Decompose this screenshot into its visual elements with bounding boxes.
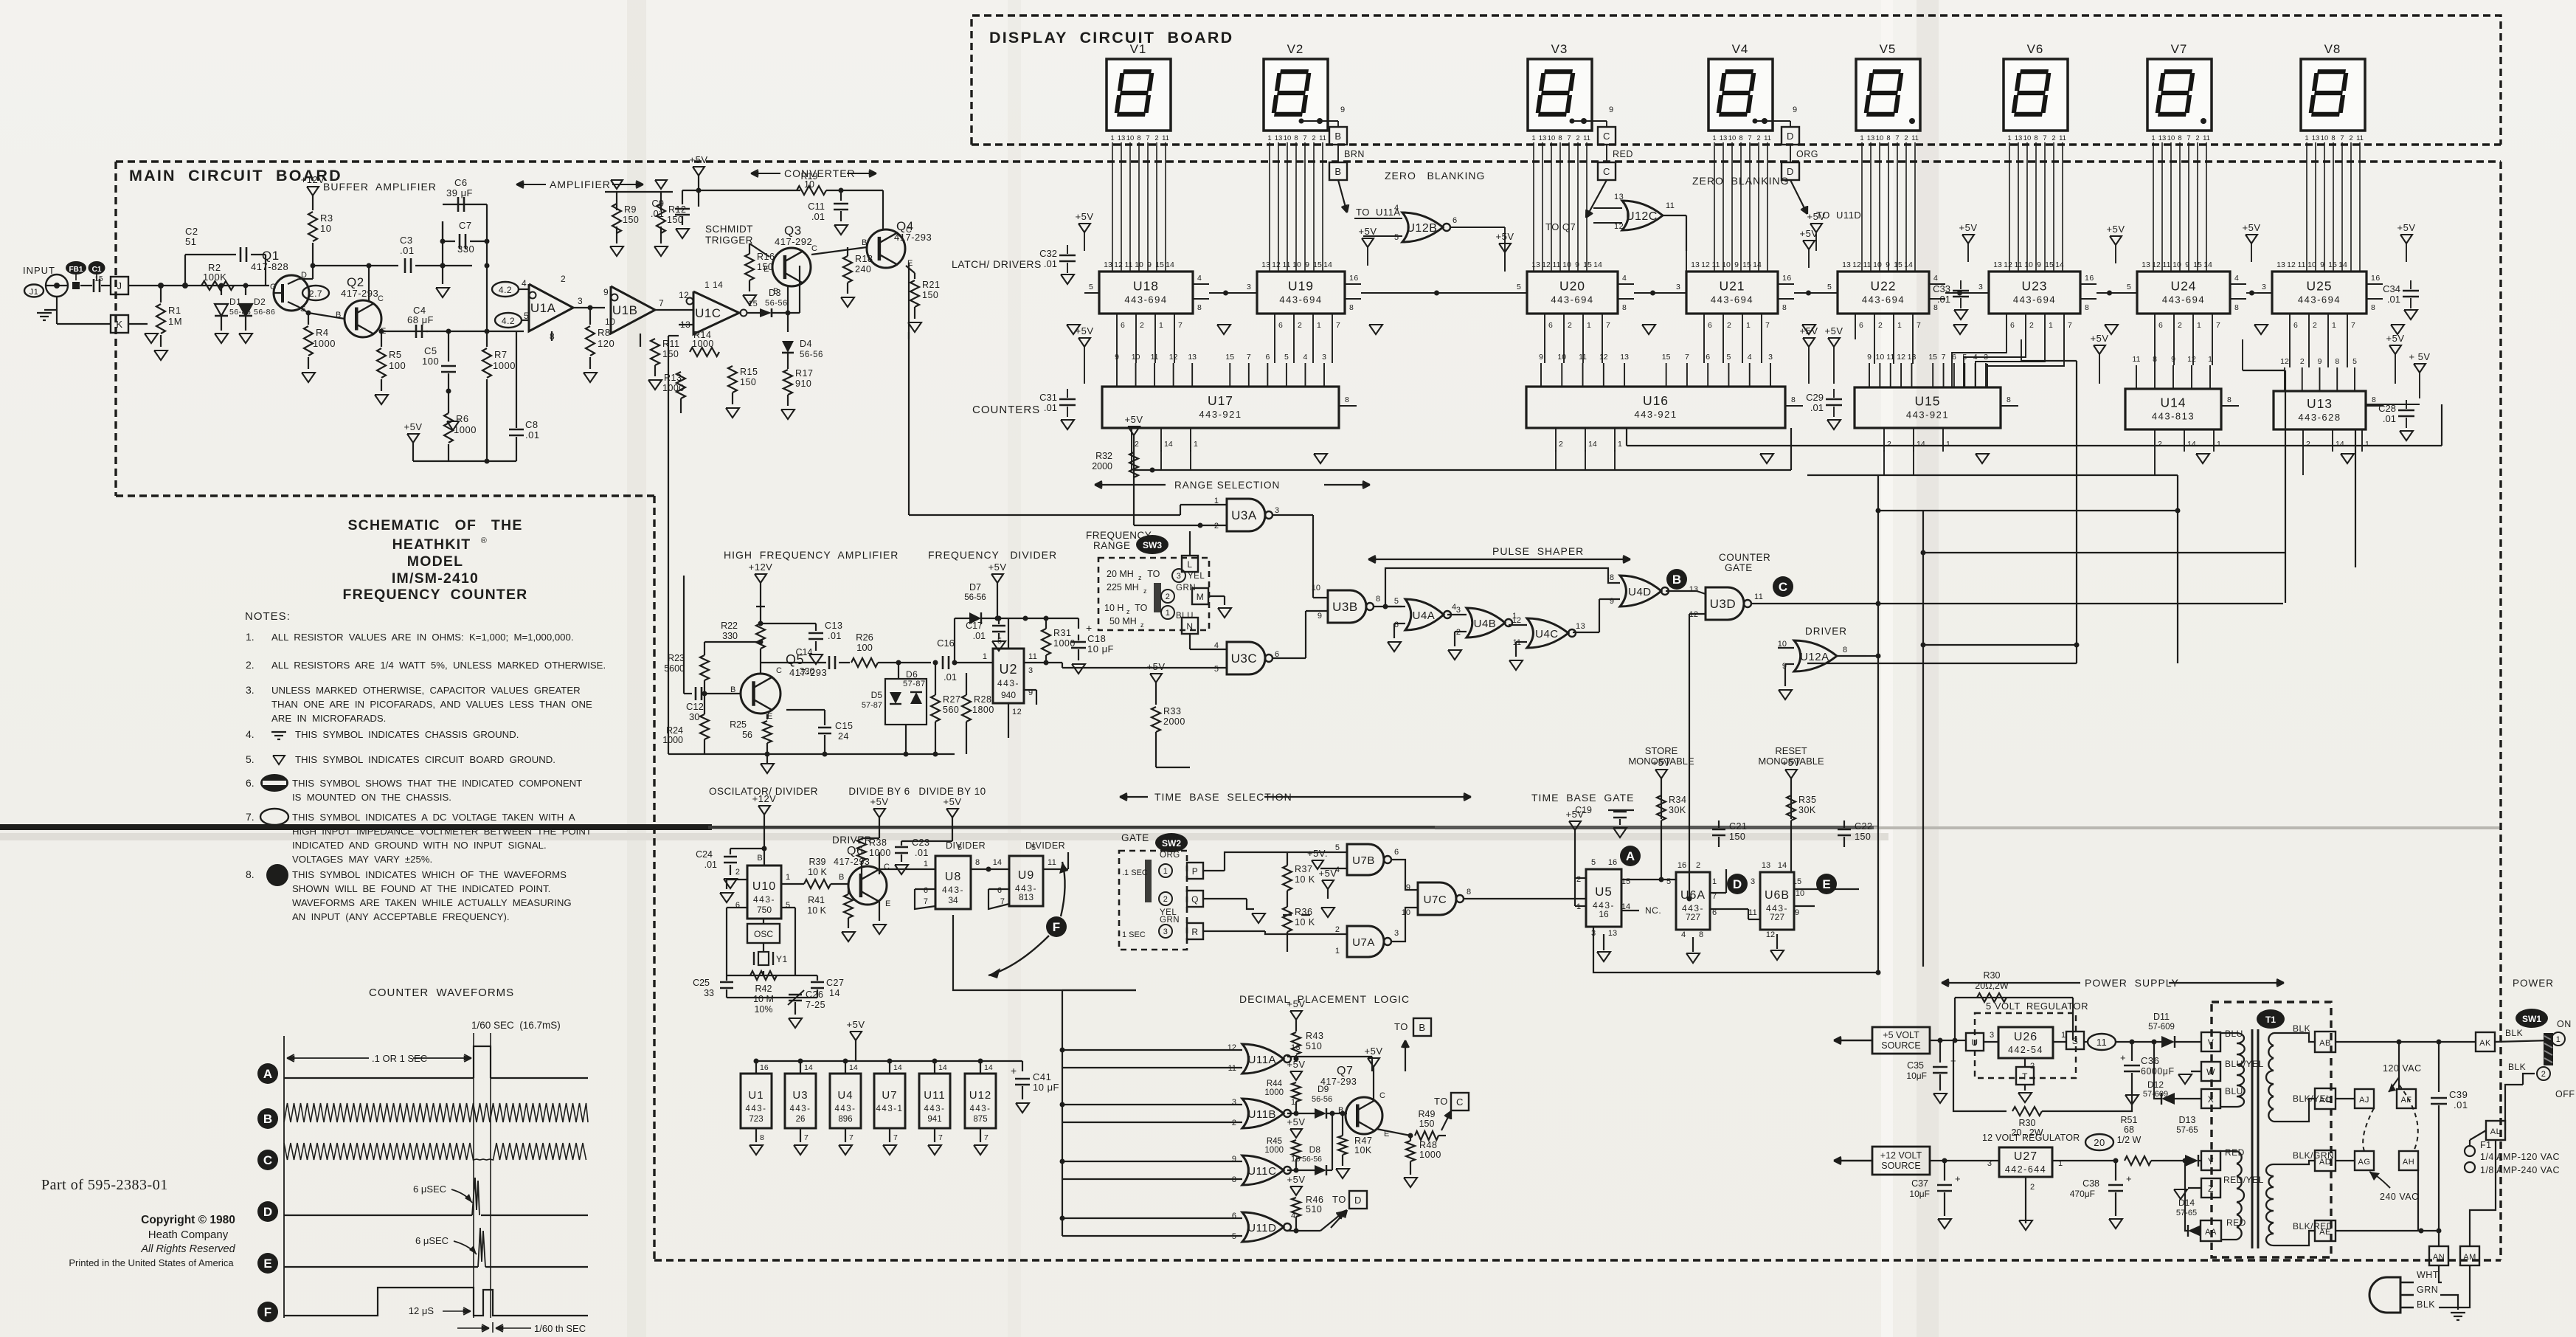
svg-text:+5V: +5V — [1782, 757, 1801, 768]
svg-text:2: 2 — [2178, 321, 2182, 330]
svg-text:30K: 30K — [1669, 805, 1686, 815]
svg-text:U5: U5 — [1595, 885, 1613, 899]
svg-text:14: 14 — [984, 1063, 993, 1072]
svg-text:U4A: U4A — [1413, 609, 1436, 622]
svg-text:C12: C12 — [686, 701, 704, 712]
svg-text:1: 1 — [1946, 440, 1950, 449]
svg-text:R25: R25 — [730, 719, 747, 730]
svg-text:14: 14 — [804, 1063, 813, 1072]
svg-text:U24: U24 — [2170, 279, 2196, 294]
svg-text:2: 2 — [1568, 321, 1572, 330]
svg-text:6: 6 — [2158, 321, 2163, 330]
svg-text:U11: U11 — [924, 1089, 945, 1102]
svg-text:®: ® — [481, 536, 488, 545]
svg-text:4: 4 — [1303, 353, 1308, 362]
svg-text:U6A: U6A — [1680, 889, 1706, 902]
svg-text:443-694: 443-694 — [1862, 294, 1905, 305]
svg-text:5: 5 — [2352, 357, 2357, 366]
svg-text:8: 8 — [1137, 134, 1140, 142]
svg-text:COUNTERS: COUNTERS — [972, 404, 1040, 416]
svg-text:7: 7 — [1748, 134, 1751, 142]
svg-text:9: 9 — [1539, 353, 1543, 362]
svg-text:4: 4 — [1622, 274, 1627, 283]
svg-text:+5V: +5V — [1359, 226, 1377, 237]
svg-text:THIS SYMBOL INDICATES WHICH: THIS SYMBOL INDICATES WHICH OF THE WAVEF… — [292, 869, 567, 880]
svg-text:7: 7 — [1303, 134, 1306, 142]
svg-text:DECIMAL PLACEMENT LOGIC: DECIMAL PLACEMENT LOGIC — [1239, 993, 1410, 1005]
svg-text:2: 2 — [1696, 861, 1700, 870]
svg-text:1: 1 — [924, 860, 928, 868]
svg-text:R27: R27 — [943, 694, 960, 705]
svg-text:13: 13 — [1539, 134, 1547, 142]
svg-text:C2: C2 — [185, 226, 198, 237]
svg-text:30K: 30K — [1798, 805, 1816, 815]
svg-text:3.: 3. — [246, 684, 255, 696]
svg-text:5: 5 — [1284, 353, 1289, 362]
svg-text:7: 7 — [2351, 321, 2355, 330]
svg-text:U7C: U7C — [1424, 894, 1447, 906]
svg-text:V5: V5 — [1880, 42, 1897, 56]
svg-text:150: 150 — [740, 377, 756, 387]
svg-text:F1: F1 — [2480, 1140, 2492, 1150]
svg-text:56-56: 56-56 — [1312, 1095, 1332, 1104]
svg-text:3: 3 — [1768, 353, 1773, 362]
svg-text:U17: U17 — [1208, 393, 1233, 408]
svg-text:12: 12 — [1114, 260, 1123, 269]
svg-text:57-65: 57-65 — [2176, 1209, 2197, 1217]
svg-text:7: 7 — [849, 1133, 854, 1142]
svg-text:9: 9 — [2320, 260, 2324, 269]
svg-text:U13: U13 — [2307, 396, 2333, 411]
svg-text:SW1: SW1 — [2522, 1014, 2541, 1024]
svg-text:12: 12 — [1228, 1043, 1236, 1052]
svg-text:417-293: 417-293 — [1320, 1077, 1357, 1087]
svg-text:SOURCE: SOURCE — [1881, 1040, 1920, 1051]
svg-text:1: 1 — [2305, 134, 2308, 142]
svg-text:11: 11 — [2356, 134, 2364, 142]
svg-text:C8: C8 — [525, 419, 539, 430]
svg-text:9: 9 — [603, 287, 609, 297]
svg-text:U: U — [1971, 1037, 1978, 1048]
svg-text:12: 12 — [1852, 260, 1861, 269]
svg-text:4: 4 — [1933, 274, 1938, 283]
svg-text:8: 8 — [1739, 134, 1742, 142]
svg-text:SCHMIDT: SCHMIDT — [705, 224, 753, 235]
svg-text:2: 2 — [1135, 440, 1139, 449]
svg-text:R44: R44 — [1267, 1079, 1283, 1088]
svg-text:R5: R5 — [389, 349, 402, 360]
svg-text:443-: 443- — [834, 1105, 856, 1113]
svg-text:IS MOUNTED ON THE CHASSIS.: IS MOUNTED ON THE CHASSIS. — [292, 792, 451, 803]
svg-text:51: 51 — [185, 236, 196, 247]
svg-text:100K: 100K — [203, 272, 226, 283]
svg-text:16: 16 — [1782, 274, 1792, 283]
svg-text:10: 10 — [1557, 353, 1566, 362]
svg-text:10%: 10% — [754, 1004, 772, 1015]
svg-text:SW3: SW3 — [1143, 540, 1162, 550]
svg-text:14: 14 — [938, 1063, 947, 1072]
svg-text:10: 10 — [1728, 134, 1737, 142]
svg-text:ZERO BLANKING: ZERO BLANKING — [1692, 175, 1789, 187]
svg-text:10: 10 — [1548, 134, 1556, 142]
svg-text:V4: V4 — [1732, 42, 1749, 56]
svg-text:1800: 1800 — [972, 705, 994, 715]
svg-text:6: 6 — [1394, 848, 1399, 857]
svg-text:C21: C21 — [1729, 821, 1747, 832]
svg-text:150: 150 — [1419, 1119, 1435, 1129]
svg-text:C: C — [906, 226, 912, 235]
svg-text:R45: R45 — [1267, 1137, 1282, 1146]
svg-text:11: 11 — [2298, 260, 2306, 269]
svg-text:1/60 SEC (16.7mS): 1/60 SEC (16.7mS) — [471, 1020, 561, 1031]
svg-text:5: 5 — [1666, 877, 1671, 886]
svg-text:+5V: +5V — [1287, 998, 1306, 1009]
svg-text:UNLESS MARKED OTHERWISE, CA: UNLESS MARKED OTHERWISE, CAPACITOR VALUE… — [271, 685, 581, 696]
svg-text:14: 14 — [1753, 260, 1762, 269]
svg-text:BLK: BLK — [2505, 1028, 2523, 1038]
svg-text:9: 9 — [1340, 106, 1346, 114]
svg-text:13: 13 — [1261, 260, 1270, 269]
svg-text:D7: D7 — [969, 582, 981, 593]
svg-text:IM/SM-2410: IM/SM-2410 — [392, 570, 479, 587]
svg-text:RANGE: RANGE — [1093, 540, 1131, 551]
svg-text:U20: U20 — [1559, 279, 1585, 294]
svg-text:3: 3 — [1322, 353, 1326, 362]
svg-text:10 K: 10 K — [808, 867, 827, 877]
svg-text:5: 5 — [1031, 843, 1036, 852]
svg-text:8: 8 — [1558, 134, 1562, 142]
svg-text:R15: R15 — [740, 367, 758, 377]
svg-text:C39: C39 — [2449, 1089, 2468, 1100]
svg-text:COUNTER: COUNTER — [1719, 552, 1770, 563]
svg-text:R30: R30 — [1984, 970, 2001, 981]
svg-text:13: 13 — [1720, 134, 1728, 142]
svg-text:16: 16 — [1677, 861, 1686, 870]
svg-text:7: 7 — [893, 1133, 898, 1142]
svg-text:+5V: +5V — [1566, 809, 1585, 820]
svg-text:100: 100 — [389, 360, 406, 371]
svg-text:8.: 8. — [246, 868, 255, 880]
svg-text:U11D: U11D — [1247, 1222, 1276, 1234]
svg-text:GRN: GRN — [1160, 916, 1180, 925]
svg-text:U9: U9 — [1018, 869, 1034, 882]
svg-text:442-54: 442-54 — [2008, 1045, 2043, 1055]
svg-text:13: 13 — [1867, 134, 1875, 142]
svg-text:443-694: 443-694 — [2162, 294, 2205, 305]
svg-text:11: 11 — [1712, 260, 1720, 269]
svg-text:10: 10 — [804, 179, 814, 190]
svg-text:1: 1 — [1746, 321, 1751, 330]
svg-text:150: 150 — [757, 262, 773, 272]
svg-text:13: 13 — [1576, 622, 1585, 631]
svg-text:2: 2 — [1140, 321, 1144, 330]
svg-text:443-694: 443-694 — [1551, 294, 1593, 305]
svg-text:2.: 2. — [246, 659, 255, 671]
svg-text:8: 8 — [2372, 395, 2376, 404]
svg-text:8: 8 — [2178, 134, 2181, 142]
svg-text:AD: AD — [2319, 1158, 2331, 1167]
svg-text:THAN ONE ARE IN PICOFARADS: THAN ONE ARE IN PICOFARADS, AND VALUES L… — [271, 699, 592, 710]
svg-text:68: 68 — [2124, 1124, 2134, 1135]
svg-text:U25: U25 — [2306, 279, 2332, 294]
svg-text:8: 8 — [975, 858, 980, 867]
svg-text:3: 3 — [1990, 1031, 1995, 1040]
svg-text:13: 13 — [1608, 929, 1617, 938]
svg-text:C9: C9 — [651, 198, 664, 209]
svg-text:+5V: +5V — [2243, 222, 2261, 233]
svg-text:443-694: 443-694 — [2013, 294, 2056, 305]
svg-text:9: 9 — [1609, 106, 1614, 114]
svg-text:10: 10 — [2307, 260, 2316, 269]
svg-text:R1: R1 — [168, 305, 181, 316]
svg-text:443-694: 443-694 — [1711, 294, 1753, 305]
svg-text:2: 2 — [1559, 440, 1563, 449]
svg-text:2: 2 — [1878, 321, 1883, 330]
svg-text:13: 13 — [1620, 353, 1629, 362]
svg-text:AB: AB — [2319, 1039, 2331, 1048]
svg-text:9: 9 — [1232, 1155, 1236, 1164]
svg-text:6: 6 — [1708, 321, 1712, 330]
svg-text:6: 6 — [997, 886, 1002, 895]
svg-text:E: E — [767, 712, 773, 721]
svg-text:3: 3 — [1232, 1098, 1236, 1107]
svg-text:+5V: +5V — [1319, 868, 1337, 879]
svg-text:240: 240 — [855, 264, 871, 274]
svg-text:1: 1 — [2332, 321, 2336, 330]
svg-text:5: 5 — [1394, 233, 1399, 242]
svg-text:10 μF: 10 μF — [1087, 643, 1114, 654]
svg-text:12: 12 — [1512, 616, 1521, 625]
svg-text:Copyright © 1980: Copyright © 1980 — [141, 1214, 235, 1226]
svg-text:12: 12 — [2287, 260, 2296, 269]
svg-text:5: 5 — [1089, 283, 1093, 291]
svg-text:.01: .01 — [1810, 402, 1824, 413]
svg-text:Part of 595-2383-01: Part of 595-2383-01 — [41, 1177, 168, 1193]
svg-text:8: 8 — [1610, 573, 1614, 582]
svg-text:10μF: 10μF — [1906, 1071, 1927, 1081]
svg-text:1/60 th SEC: 1/60 th SEC — [534, 1323, 586, 1334]
svg-text:+: + — [1955, 1173, 1961, 1184]
svg-text:7: 7 — [1942, 353, 1946, 362]
svg-text:7: 7 — [1146, 134, 1149, 142]
svg-text:1: 1 — [1163, 867, 1168, 876]
svg-text:12: 12 — [2152, 260, 2161, 269]
svg-text:11: 11 — [1319, 134, 1326, 142]
svg-text:3: 3 — [2262, 283, 2266, 291]
svg-text:15: 15 — [1313, 260, 1322, 269]
svg-text:15: 15 — [2328, 260, 2337, 269]
svg-text:13: 13 — [2015, 134, 2023, 142]
svg-text:U19: U19 — [1288, 279, 1314, 294]
svg-text:10 K: 10 K — [1295, 917, 1315, 927]
svg-text:U3: U3 — [792, 1089, 808, 1102]
svg-text:13: 13 — [2142, 260, 2150, 269]
svg-text:POWER: POWER — [2513, 978, 2554, 989]
svg-text:F: F — [1053, 920, 1060, 934]
svg-text:Q7: Q7 — [1337, 1065, 1353, 1077]
svg-text:1000: 1000 — [1419, 1150, 1441, 1160]
svg-text:U4C: U4C — [1535, 628, 1559, 640]
svg-text:5 VOLT REGULATOR: 5 VOLT REGULATOR — [1986, 1001, 2088, 1012]
svg-text:16: 16 — [1599, 909, 1609, 919]
svg-text:R22: R22 — [721, 621, 738, 631]
svg-text:727: 727 — [1770, 912, 1784, 922]
svg-text:14: 14 — [893, 1063, 902, 1072]
svg-text:33: 33 — [704, 988, 714, 998]
svg-text:U8: U8 — [945, 871, 961, 883]
svg-text:SW2: SW2 — [1162, 838, 1181, 849]
svg-text:D12: D12 — [2147, 1079, 2164, 1090]
svg-text:1000: 1000 — [313, 338, 336, 349]
svg-text:7: 7 — [2068, 321, 2072, 330]
svg-text:J: J — [117, 280, 122, 291]
svg-text:C29: C29 — [1806, 392, 1824, 403]
svg-text:B: B — [757, 854, 762, 863]
svg-text:1: 1 — [1335, 947, 1340, 956]
svg-text:U26: U26 — [2014, 1031, 2037, 1043]
svg-text:YEL: YEL — [1188, 572, 1205, 581]
svg-text:150: 150 — [922, 290, 938, 300]
svg-text:z: z — [1143, 587, 1147, 595]
svg-text:8: 8 — [1197, 303, 1202, 312]
svg-text:INPUT: INPUT — [23, 265, 55, 276]
svg-text:B: B — [1334, 166, 1341, 177]
svg-text:10: 10 — [2167, 134, 2175, 142]
svg-text:10: 10 — [1876, 134, 1884, 142]
svg-text:DISPLAY CIRCUIT BOARD: DISPLAY CIRCUIT BOARD — [989, 29, 1233, 46]
svg-text:V3: V3 — [1551, 42, 1568, 56]
svg-text:2: 2 — [1727, 321, 1731, 330]
svg-text:11: 11 — [2097, 1037, 2108, 1048]
svg-text:150: 150 — [1855, 832, 1871, 842]
svg-text:16: 16 — [1608, 858, 1617, 867]
svg-text:5: 5 — [1517, 283, 1521, 291]
svg-text:+12V: +12V — [301, 174, 325, 185]
svg-text:R41: R41 — [808, 895, 825, 905]
svg-text:14: 14 — [1904, 260, 1913, 269]
svg-text:.01: .01 — [1044, 258, 1057, 269]
svg-text:T: T — [2022, 1071, 2028, 1082]
svg-text:7: 7 — [1917, 321, 1921, 330]
svg-text:13: 13 — [1689, 585, 1698, 594]
svg-text:11: 11 — [2059, 134, 2066, 142]
svg-text:15: 15 — [1662, 353, 1671, 362]
svg-text:11: 11 — [2015, 260, 2023, 269]
svg-text:GRN: GRN — [1176, 584, 1196, 593]
svg-text:DIVIDE BY 10: DIVIDE BY 10 — [918, 786, 986, 797]
svg-text:.01: .01 — [2383, 413, 2396, 424]
svg-text:6: 6 — [2293, 321, 2298, 330]
svg-text:13: 13 — [1614, 193, 1624, 201]
svg-text:9: 9 — [1793, 106, 1798, 114]
svg-text:+: + — [2120, 1052, 2126, 1063]
svg-text:C18: C18 — [1087, 633, 1106, 644]
svg-text:C: C — [811, 244, 817, 253]
svg-text:6: 6 — [1121, 321, 1125, 330]
svg-text:B: B — [862, 238, 868, 247]
svg-text:AK: AK — [2479, 1039, 2491, 1048]
svg-text:6: 6 — [1265, 353, 1270, 362]
svg-text:.01: .01 — [2387, 294, 2400, 305]
svg-text:330: 330 — [722, 631, 738, 641]
svg-text:U1: U1 — [748, 1089, 764, 1102]
svg-text:5: 5 — [1335, 843, 1340, 852]
svg-text:443-: 443- — [997, 678, 1019, 688]
svg-text:3: 3 — [578, 296, 583, 306]
svg-text:12: 12 — [1169, 353, 1178, 362]
svg-text:443-694: 443-694 — [1124, 294, 1167, 305]
svg-text:+5V: +5V — [690, 154, 708, 165]
svg-text:510: 510 — [1306, 1041, 1322, 1051]
svg-text:13: 13 — [1993, 260, 2002, 269]
svg-text:R: R — [1191, 927, 1198, 937]
svg-text:11: 11 — [1125, 260, 1133, 269]
svg-text:A: A — [1626, 849, 1635, 863]
svg-text:3: 3 — [1275, 506, 1280, 515]
svg-text:L: L — [1187, 559, 1192, 570]
svg-text:1000: 1000 — [869, 848, 891, 858]
svg-text:417-292: 417-292 — [775, 236, 812, 247]
svg-text:7: 7 — [2187, 134, 2190, 142]
svg-text:15: 15 — [1583, 260, 1592, 269]
svg-text:C41: C41 — [1033, 1071, 1051, 1082]
svg-text:1: 1 — [983, 652, 987, 661]
svg-text:5: 5 — [786, 901, 791, 910]
svg-text:11: 11 — [1583, 134, 1590, 142]
svg-text:R13: R13 — [664, 373, 682, 383]
svg-text:B: B — [839, 873, 845, 882]
svg-text:+5V: +5V — [1287, 1174, 1306, 1185]
svg-text:+12V: +12V — [749, 562, 773, 573]
svg-text:HIGH INPUT IMPEDANCE VOLTME: HIGH INPUT IMPEDANCE VOLTMETER BETWEEN T… — [292, 826, 592, 837]
svg-text:120 VAC: 120 VAC — [2383, 1063, 2422, 1074]
svg-text:1: 1 — [2061, 1031, 2066, 1040]
svg-text:U2: U2 — [999, 662, 1017, 677]
svg-text:C17: C17 — [966, 621, 983, 631]
svg-text:U6B: U6B — [1765, 889, 1790, 902]
svg-text:V6: V6 — [2027, 42, 2044, 56]
svg-text:+5V: +5V — [404, 421, 423, 432]
svg-text:z: z — [1138, 574, 1142, 581]
svg-text:D: D — [263, 1205, 272, 1219]
svg-text:SOURCE: SOURCE — [1881, 1161, 1920, 1171]
svg-text:16: 16 — [760, 1063, 769, 1072]
svg-text:AN: AN — [2433, 1253, 2445, 1262]
svg-text:443-: 443- — [969, 1105, 991, 1113]
svg-text:150: 150 — [1729, 832, 1745, 842]
svg-text:D11: D11 — [2153, 1012, 2170, 1022]
svg-text:C24: C24 — [696, 849, 713, 860]
svg-text:Q: Q — [1191, 894, 1199, 905]
svg-text:330: 330 — [457, 243, 474, 255]
svg-text:12: 12 — [1272, 260, 1281, 269]
svg-text:.01: .01 — [2454, 1099, 2468, 1110]
svg-text:z: z — [1126, 608, 1130, 615]
svg-text:FREQUENCY COUNTER: FREQUENCY COUNTER — [343, 587, 528, 603]
svg-text:4: 4 — [1197, 274, 1202, 283]
svg-text:11: 11 — [1048, 858, 1056, 867]
svg-text:SCHEMATIC OF THE: SCHEMATIC OF THE — [347, 517, 522, 533]
svg-text:5: 5 — [1827, 283, 1832, 291]
svg-text:R33: R33 — [1163, 706, 1181, 716]
svg-text:C35: C35 — [1907, 1060, 1924, 1071]
svg-text:Printed in the United States o: Printed in the United States of America — [69, 1257, 234, 1268]
svg-text:13: 13 — [2158, 134, 2167, 142]
svg-text:K: K — [116, 319, 122, 330]
svg-text:D13: D13 — [2179, 1115, 2196, 1125]
svg-text:1: 1 — [2217, 440, 2221, 449]
svg-text:R46: R46 — [1306, 1195, 1323, 1205]
